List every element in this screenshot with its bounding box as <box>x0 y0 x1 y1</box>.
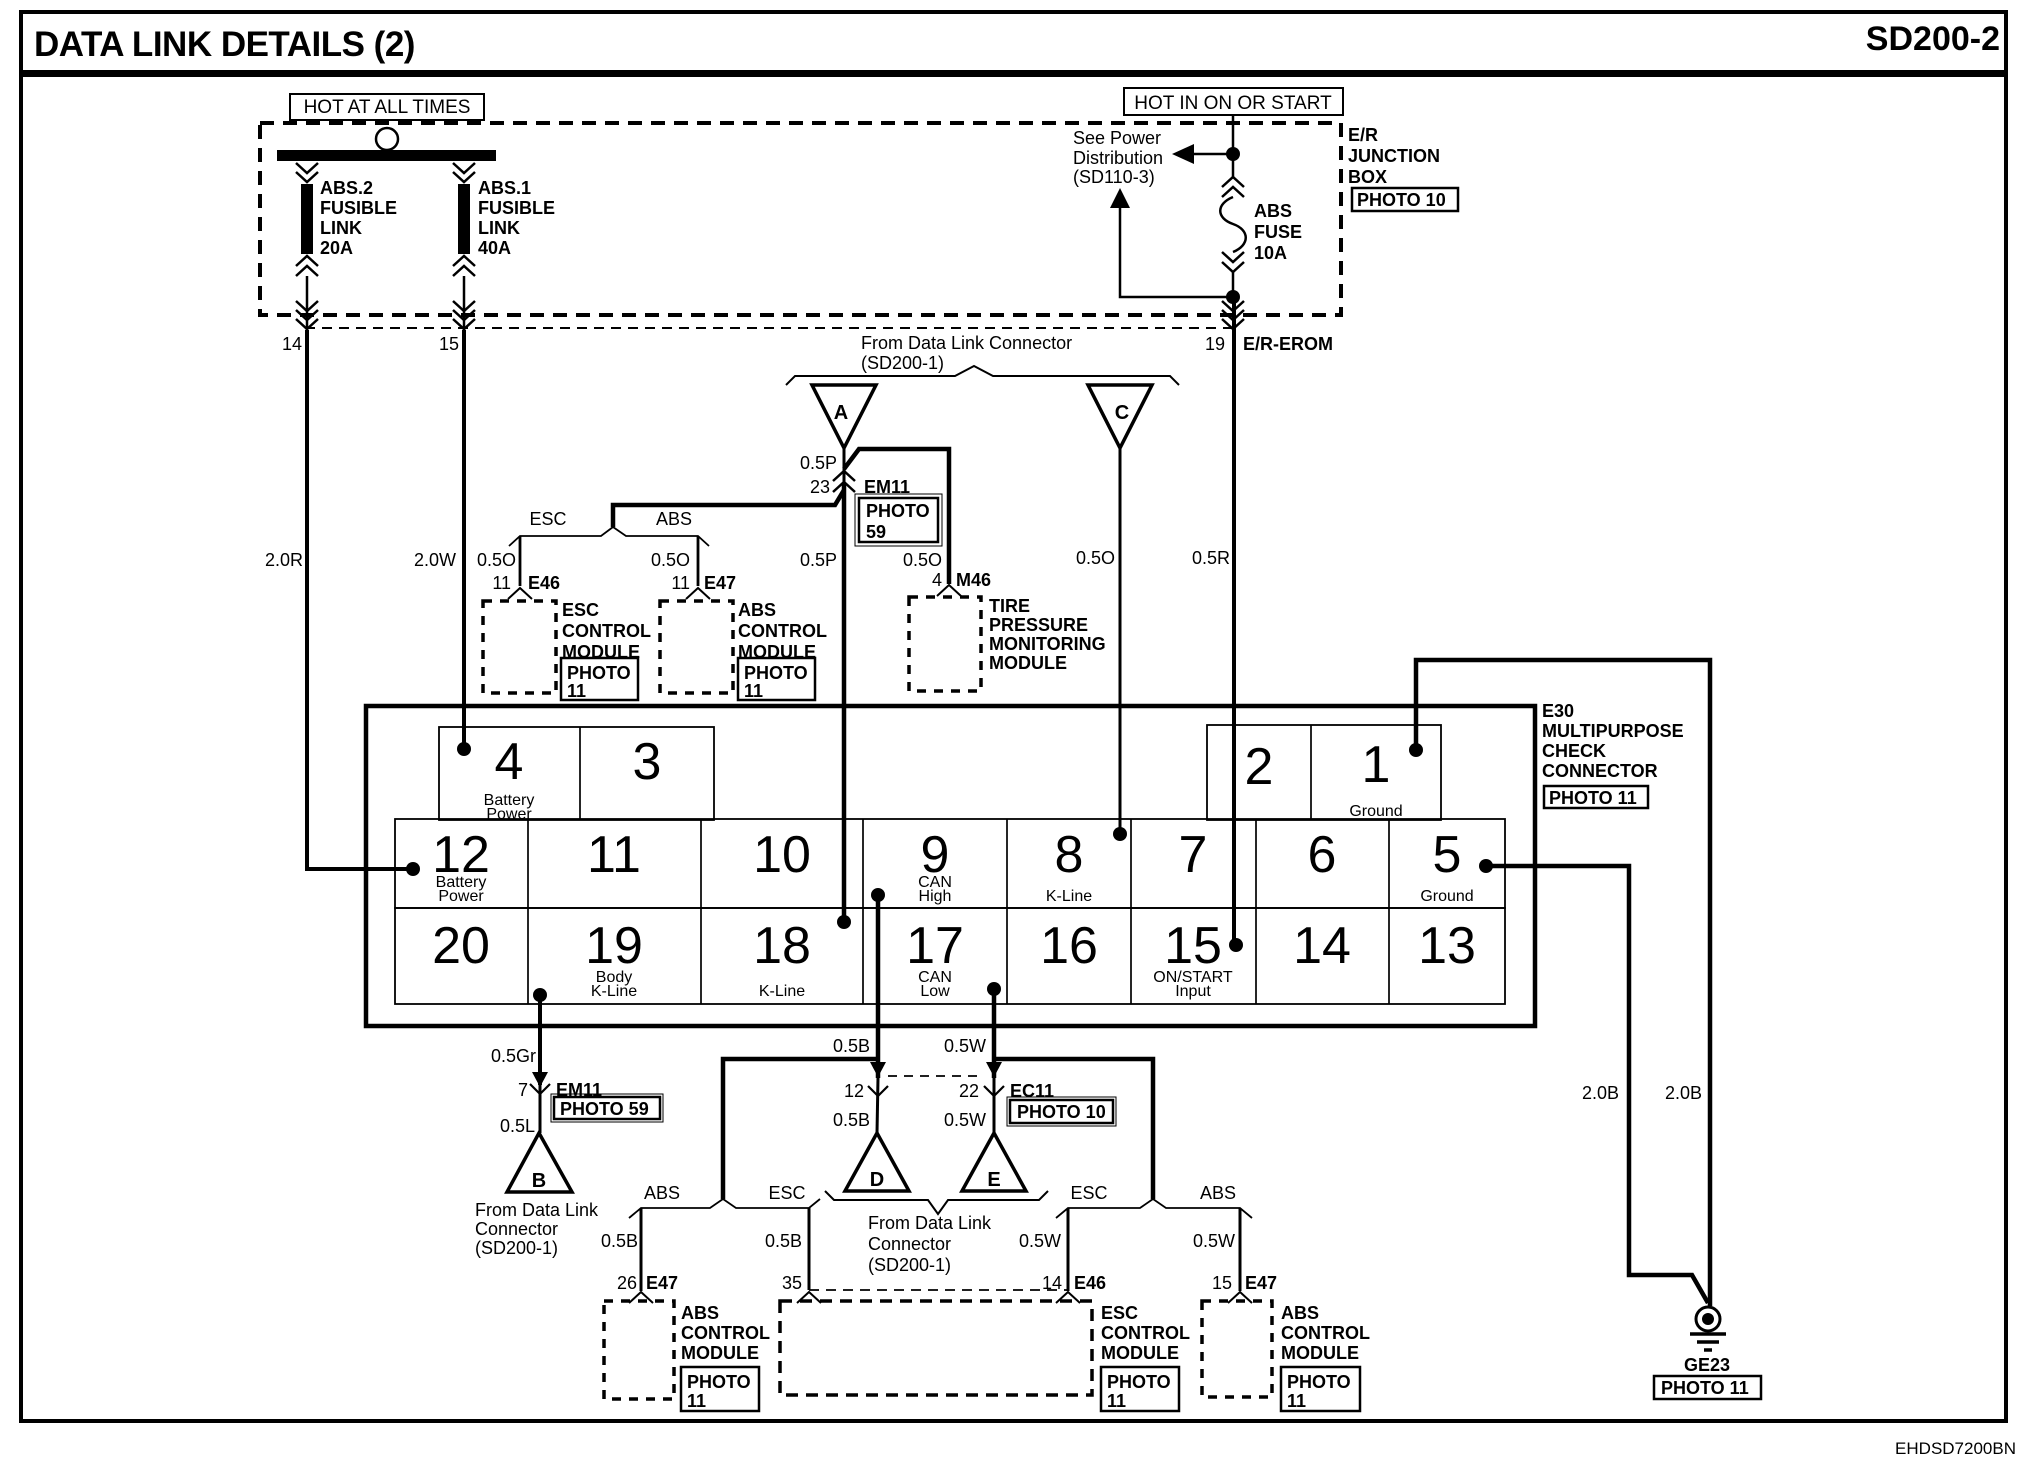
page code SD200-2 <box>1866 20 2000 58</box>
svg-text:0.5W: 0.5W <box>1193 1231 1235 1251</box>
svg-text:35: 35 <box>782 1273 802 1293</box>
svg-text:11: 11 <box>1287 1391 1306 1411</box>
svg-text:12: 12 <box>844 1081 864 1101</box>
svg-text:Low: Low <box>920 983 950 1000</box>
node pin 15 on/start input <box>1229 938 1243 952</box>
svg-text:MODULE: MODULE <box>1281 1343 1359 1363</box>
pin 14 label <box>282 334 302 354</box>
wire 0.5L to triangle B <box>500 1116 535 1136</box>
connector E46 pin 11 <box>492 573 560 599</box>
svg-text:ABS.2: ABS.2 <box>320 178 373 198</box>
wire 0.5Gr pin 19 to EM11 7 <box>491 995 540 1133</box>
svg-text:11: 11 <box>671 573 690 593</box>
svg-text:6: 6 <box>1308 826 1337 884</box>
connector EC11 pin 12 arrows <box>844 1062 888 1101</box>
svg-text:CONTROL: CONTROL <box>681 1323 770 1343</box>
svg-text:0.5W: 0.5W <box>1019 1231 1061 1251</box>
svg-text:2.0R: 2.0R <box>265 550 303 570</box>
connector E46 pin 14 <box>1042 1273 1106 1303</box>
label see power distribution <box>1073 128 1163 187</box>
connector triangle C <box>1088 385 1152 448</box>
wire 2.0B pin 5 to ground <box>1486 866 1708 1303</box>
svg-text:20: 20 <box>432 917 490 975</box>
svg-text:0.5O: 0.5O <box>651 550 690 570</box>
svg-text:PHOTO: PHOTO <box>744 663 808 683</box>
svg-text:(SD200-1): (SD200-1) <box>475 1238 558 1258</box>
svg-text:ESC: ESC <box>562 600 599 620</box>
node pin 8 k-line <box>1113 827 1127 841</box>
label from data link connector (D/E) <box>868 1213 992 1275</box>
svg-text:FUSIBLE: FUSIBLE <box>478 198 555 218</box>
connector chevrons wire 19 <box>1222 301 1244 329</box>
svg-text:0.5B: 0.5B <box>601 1231 638 1251</box>
svg-text:16: 16 <box>1040 917 1098 975</box>
svg-text:PRESSURE: PRESSURE <box>989 615 1088 635</box>
svg-text:11: 11 <box>567 681 586 701</box>
fusible link ABS.2 label <box>320 178 397 258</box>
wire branch to M46 <box>844 449 949 584</box>
svg-text:0.5O: 0.5O <box>1076 548 1115 568</box>
junction dot fuse output <box>1226 290 1240 304</box>
pin 15 label <box>439 334 459 354</box>
svg-text:ABS: ABS <box>738 600 776 620</box>
svg-text:0.5Gr: 0.5Gr <box>491 1046 536 1066</box>
pin 19 label E/R-EROM <box>1205 334 1333 354</box>
connector E47 pin 15 <box>1212 1273 1277 1303</box>
arrow to power distribution <box>1172 144 1233 164</box>
connector EM11 pin 7 arrows <box>518 1072 602 1100</box>
svg-text:11: 11 <box>492 573 511 593</box>
EC11 dashed link line <box>888 1075 984 1077</box>
connector pin 35 <box>782 1273 821 1303</box>
fusible link ABS.2 element 20A <box>301 184 313 254</box>
svg-text:MODULE: MODULE <box>1101 1343 1179 1363</box>
figure code <box>1895 1439 2016 1458</box>
svg-text:2.0W: 2.0W <box>414 550 456 570</box>
svg-text:14: 14 <box>1293 917 1351 975</box>
svg-text:23: 23 <box>810 477 830 497</box>
bottom row cells 20-13 <box>395 908 1505 1004</box>
node pin 18 k-line <box>837 915 851 929</box>
ground GE23 symbol <box>1684 1307 1730 1375</box>
svg-text:CONNECTOR: CONNECTOR <box>1542 761 1658 781</box>
wire link 20A to connector 14 <box>306 276 309 330</box>
svg-text:MODULE: MODULE <box>989 653 1067 673</box>
top row cells 4 and 3 <box>439 727 714 823</box>
wire 0.5R E/R-EROM to pin 15 <box>1192 297 1234 945</box>
svg-text:From Data Link: From Data Link <box>475 1200 599 1220</box>
connector EM11 pin 23 chevrons <box>810 471 910 497</box>
svg-text:10: 10 <box>753 826 811 884</box>
svg-text:0.5W: 0.5W <box>944 1036 986 1056</box>
ESC control module box (top) <box>483 600 651 701</box>
ESC/ABS split branch lines <box>477 509 709 586</box>
E30 multipurpose check connector outer box <box>366 706 1535 1026</box>
svg-text:E/R: E/R <box>1348 125 1378 145</box>
title DATA LINK DETAILS (2) <box>34 25 415 64</box>
ground GE23 photo 11 box <box>1654 1376 1761 1399</box>
svg-text:PHOTO: PHOTO <box>866 501 930 521</box>
svg-text:0.5P: 0.5P <box>800 550 837 570</box>
wire branch to ESC/ABS split <box>613 490 844 527</box>
ABS fuse element 10A <box>1220 197 1246 252</box>
bus circle terminal <box>376 128 398 150</box>
EM11 photo 59 box (lower) <box>551 1094 663 1122</box>
svg-text:A: A <box>834 402 848 424</box>
svg-text:E30: E30 <box>1542 701 1574 721</box>
wire link 40A to connector 15 <box>463 276 466 330</box>
svg-text:ESC: ESC <box>1101 1303 1138 1323</box>
svg-text:15: 15 <box>1212 1273 1232 1293</box>
svg-text:Connector: Connector <box>475 1219 558 1239</box>
node pin 19 body k-line <box>533 988 547 1002</box>
fusible link ABS.2 chevrons bottom <box>296 256 318 276</box>
svg-text:0.5R: 0.5R <box>1192 548 1230 568</box>
unnamed module box (wide) <box>780 1301 1092 1395</box>
fusible link ABS.1 chevrons bottom <box>453 256 475 276</box>
svg-text:ESC: ESC <box>768 1183 805 1203</box>
svg-text:20A: 20A <box>320 238 353 258</box>
svg-text:K-Line: K-Line <box>1046 888 1092 905</box>
wire 0.5B pin 9 to EC11 12 <box>833 895 878 1133</box>
svg-text:CONTROL: CONTROL <box>562 621 651 641</box>
svg-text:ESC: ESC <box>1070 1183 1107 1203</box>
svg-text:EHDSD7200BN: EHDSD7200BN <box>1895 1439 2016 1458</box>
connector triangle E <box>962 1133 1026 1191</box>
svg-text:MULTIPURPOSE: MULTIPURPOSE <box>1542 721 1684 741</box>
svg-text:PHOTO 59: PHOTO 59 <box>560 1099 649 1119</box>
svg-text:E47: E47 <box>1245 1273 1277 1293</box>
svg-text:7: 7 <box>1179 826 1208 884</box>
svg-text:CONTROL: CONTROL <box>1101 1323 1190 1343</box>
wire 0.5W pin 17 to EC11 22 <box>944 989 994 1133</box>
ABS fuse chevrons top <box>1222 154 1244 197</box>
connector M46 pin 4 <box>932 570 991 596</box>
svg-text:FUSE: FUSE <box>1254 222 1302 242</box>
label from data link connector (top) <box>861 333 1072 373</box>
svg-text:2: 2 <box>1245 738 1274 796</box>
svg-text:4: 4 <box>932 570 942 590</box>
svg-text:ESC: ESC <box>529 509 566 529</box>
svg-text:0.5W: 0.5W <box>944 1110 986 1130</box>
svg-text:ABS.1: ABS.1 <box>478 178 531 198</box>
label HOT IN ON OR START <box>1124 88 1343 115</box>
svg-text:PHOTO 10: PHOTO 10 <box>1017 1102 1106 1122</box>
wire A to EM11 23 <box>800 448 844 492</box>
svg-text:19: 19 <box>1205 334 1225 354</box>
svg-text:HOT IN ON OR START: HOT IN ON OR START <box>1134 93 1332 114</box>
svg-text:B: B <box>532 1170 546 1192</box>
svg-text:Ground: Ground <box>1420 888 1473 905</box>
svg-text:Power: Power <box>438 888 484 905</box>
svg-text:(SD200-1): (SD200-1) <box>861 353 944 373</box>
svg-text:LINK: LINK <box>320 218 362 238</box>
label HOT AT ALL TIMES <box>290 94 484 120</box>
svg-text:0.5B: 0.5B <box>833 1110 870 1130</box>
connector boundary dashed line (bottom) <box>809 1289 1068 1291</box>
svg-text:PHOTO 11: PHOTO 11 <box>1661 1378 1749 1398</box>
svg-text:3: 3 <box>633 733 662 791</box>
fusible link ABS.1 label <box>478 178 555 258</box>
svg-text:E46: E46 <box>1074 1273 1106 1293</box>
svg-text:19: 19 <box>585 917 643 975</box>
ABS control module box (bottom right) <box>1202 1301 1370 1411</box>
svg-text:CONTROL: CONTROL <box>738 621 827 641</box>
node pin 4 battery power <box>457 742 471 756</box>
node pin 1 ground <box>1409 743 1423 757</box>
wire C to pin 8 <box>1076 448 1120 834</box>
connector triangle B <box>507 1133 572 1192</box>
connector E47 pin 26 <box>617 1273 678 1303</box>
svg-text:FUSIBLE: FUSIBLE <box>320 198 397 218</box>
svg-text:DATA LINK DETAILS (2): DATA LINK DETAILS (2) <box>34 25 415 64</box>
junction dot see power distribution <box>1226 147 1240 161</box>
svg-text:K-Line: K-Line <box>591 983 637 1000</box>
node pin 5 ground <box>1479 859 1493 873</box>
tire pressure monitoring module box <box>909 596 1106 691</box>
svg-text:PHOTO 11: PHOTO 11 <box>1549 788 1637 808</box>
svg-text:ABS: ABS <box>1281 1303 1319 1323</box>
svg-text:ABS: ABS <box>1254 201 1292 221</box>
svg-text:15: 15 <box>1164 917 1222 975</box>
wire 2.0R to pin 12 <box>265 330 413 869</box>
svg-text:E46: E46 <box>528 573 560 593</box>
svg-text:(SD110-3): (SD110-3) <box>1073 167 1155 187</box>
label from data link connector (B) <box>475 1200 599 1258</box>
fusible link ABS.2 chevrons top <box>296 163 318 182</box>
node pin 9 can high <box>871 888 885 902</box>
svg-text:Power: Power <box>486 806 532 823</box>
svg-text:ABS: ABS <box>656 509 692 529</box>
svg-text:See Power: See Power <box>1073 128 1161 148</box>
svg-text:CHECK: CHECK <box>1542 741 1606 761</box>
svg-text:TIRE: TIRE <box>989 596 1030 616</box>
svg-text:C: C <box>1115 402 1129 424</box>
svg-text:ABS: ABS <box>681 1303 719 1323</box>
svg-text:11: 11 <box>587 826 641 884</box>
svg-text:EC11: EC11 <box>1010 1081 1054 1101</box>
svg-text:PHOTO 10: PHOTO 10 <box>1357 190 1446 210</box>
wire 0.5P EM11 to pin 18 <box>800 485 844 922</box>
wire branch right to ESC/ABS split <box>994 1059 1153 1199</box>
fusible link ABS.1 element 40A <box>458 184 470 254</box>
brace over A and C <box>786 366 1179 385</box>
connector chevrons wire 15 <box>453 301 475 329</box>
svg-text:0.5B: 0.5B <box>833 1036 870 1056</box>
return arrow up to power distribution <box>1110 188 1233 297</box>
svg-text:SD200-2: SD200-2 <box>1866 20 2000 58</box>
E/R junction box label <box>1348 125 1458 211</box>
ABS control module box (top) <box>660 600 827 701</box>
svg-text:0.5O: 0.5O <box>477 550 516 570</box>
wire branch left to ABS/ESC split <box>723 1059 878 1199</box>
node pin 17 can low <box>987 982 1001 996</box>
svg-text:8: 8 <box>1055 826 1084 884</box>
ABS/ESC split (lower left) <box>601 1183 820 1291</box>
svg-text:0.5P: 0.5P <box>800 453 837 473</box>
svg-text:11: 11 <box>687 1391 706 1411</box>
svg-text:D: D <box>870 1169 884 1191</box>
connector triangle D <box>845 1133 909 1191</box>
ESC/ABS split (lower right) <box>1019 1183 1252 1291</box>
EC11 photo 10 box <box>1007 1097 1116 1126</box>
ABS control module box (bottom left) <box>604 1301 770 1411</box>
svg-text:7: 7 <box>518 1080 528 1100</box>
svg-text:ABS: ABS <box>644 1183 680 1203</box>
svg-text:26: 26 <box>617 1273 637 1293</box>
connector triangle A <box>812 385 876 448</box>
ESC control module box (bottom) <box>1101 1303 1190 1411</box>
svg-text:ABS: ABS <box>1200 1183 1236 1203</box>
svg-text:0.5O: 0.5O <box>903 550 942 570</box>
svg-text:HOT AT ALL TIMES: HOT AT ALL TIMES <box>304 97 471 118</box>
svg-text:Distribution: Distribution <box>1073 148 1163 168</box>
wire 2.0W to pin 4 <box>414 330 464 749</box>
svg-text:2.0B: 2.0B <box>1665 1083 1702 1103</box>
connector EC11 pin 22 arrows <box>959 1062 1054 1101</box>
E30 connector label <box>1542 701 1684 808</box>
connector chevrons wire 14 <box>296 301 318 329</box>
svg-text:1: 1 <box>1362 736 1391 794</box>
svg-text:0.5B: 0.5B <box>765 1231 802 1251</box>
svg-text:High: High <box>919 888 952 905</box>
fusible link ABS.1 chevrons top <box>453 163 475 182</box>
E/R junction box (dashed) <box>260 123 1341 315</box>
connector E47 pin 11 <box>671 573 736 599</box>
svg-text:GE23: GE23 <box>1684 1355 1730 1375</box>
battery bus bar <box>277 150 496 161</box>
EM11 photo 59 box <box>855 494 942 546</box>
node pin 12 battery power <box>406 862 420 876</box>
svg-text:40A: 40A <box>478 238 511 258</box>
svg-text:MONITORING: MONITORING <box>989 634 1106 654</box>
svg-text:E47: E47 <box>646 1273 678 1293</box>
svg-text:0.5L: 0.5L <box>500 1116 535 1136</box>
svg-text:M46: M46 <box>956 570 991 590</box>
svg-text:11: 11 <box>1107 1391 1126 1411</box>
svg-text:PHOTO: PHOTO <box>687 1372 751 1392</box>
svg-text:15: 15 <box>439 334 459 354</box>
svg-text:PHOTO: PHOTO <box>567 663 631 683</box>
svg-text:14: 14 <box>282 334 302 354</box>
svg-text:MODULE: MODULE <box>681 1343 759 1363</box>
svg-text:5: 5 <box>1433 826 1462 884</box>
top row cells 2 and 1 <box>1207 725 1441 820</box>
svg-text:59: 59 <box>866 522 886 542</box>
brace under D and E <box>825 1191 1048 1214</box>
ABS fuse chevrons bottom <box>1222 252 1244 297</box>
svg-text:From Data Link Connector: From Data Link Connector <box>861 333 1072 353</box>
svg-text:18: 18 <box>753 917 811 975</box>
svg-text:From Data Link: From Data Link <box>868 1213 992 1233</box>
middle row cells 12-5 <box>395 819 1505 908</box>
svg-text:Ground: Ground <box>1349 803 1402 820</box>
svg-text:13: 13 <box>1418 917 1476 975</box>
svg-text:4: 4 <box>495 733 524 791</box>
svg-text:22: 22 <box>959 1081 979 1101</box>
title bar divider <box>19 70 2006 77</box>
connector boundary dashed line <box>305 327 1238 329</box>
ABS fuse label <box>1254 201 1302 263</box>
svg-text:Input: Input <box>1175 983 1211 1000</box>
svg-text:E: E <box>987 1169 1000 1191</box>
svg-text:11: 11 <box>744 681 763 701</box>
svg-text:BOX: BOX <box>1348 167 1387 187</box>
svg-text:JUNCTION: JUNCTION <box>1348 146 1440 166</box>
svg-text:LINK: LINK <box>478 218 520 238</box>
svg-text:(SD200-1): (SD200-1) <box>868 1255 951 1275</box>
svg-text:17: 17 <box>906 917 964 975</box>
svg-text:10A: 10A <box>1254 243 1287 263</box>
svg-text:PHOTO: PHOTO <box>1107 1372 1171 1392</box>
svg-text:E47: E47 <box>704 573 736 593</box>
svg-text:2.0B: 2.0B <box>1582 1083 1619 1103</box>
ABS fuse feed wire <box>1232 115 1235 154</box>
svg-text:K-Line: K-Line <box>759 983 805 1000</box>
svg-text:CONTROL: CONTROL <box>1281 1323 1370 1343</box>
svg-text:PHOTO: PHOTO <box>1287 1372 1351 1392</box>
wire 2.0B pin 1 to ground <box>1416 660 1710 1306</box>
svg-text:Connector: Connector <box>868 1234 951 1254</box>
svg-text:E/R-EROM: E/R-EROM <box>1243 334 1333 354</box>
